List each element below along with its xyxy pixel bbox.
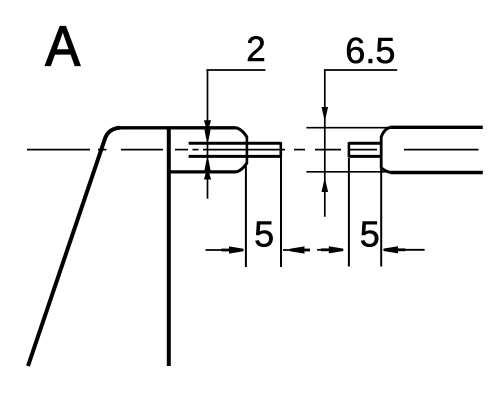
dimension 2 line [207,70,209,199]
svg-text:5: 5 [254,213,274,254]
right pin bottom outline [349,155,381,158]
centerline (dash-dot axis) [27,149,479,151]
frame diagonal edge with top fillet [28,128,120,366]
left pin bottom outline [189,155,281,158]
dimension 2 arrow outer top [204,120,211,128]
extension line right 5 second [380,169,382,267]
spindle chamfer top [381,127,390,137]
dimension right 5 arrow left [329,246,344,253]
dimension left 5 arrow left [229,246,244,253]
dimension right 5 line left part [317,249,331,251]
anvil chamfer top [237,128,247,137]
extension line left 5 second [280,158,282,268]
anvil chamfer bottom [237,163,247,172]
extension line 6.5 top [306,127,390,129]
extension line left 5 first [245,164,247,268]
left pin end cap [279,142,282,157]
dimension right 5 arrow right [384,246,399,253]
dimension 2 arrow inner top [204,130,210,140]
dimension 2 arrow inner bottom [204,160,210,171]
frame right vertical edge [167,129,171,367]
svg-text:A: A [45,13,80,78]
extension line 6.5 bottom [306,171,390,173]
dimension 2 arrow outer bottom [204,172,211,180]
svg-text:6.5: 6.5 [345,30,395,71]
dimension left 5 line right part [283,249,310,251]
spindle bottom outline [390,171,483,174]
left pin top outline [189,142,281,145]
dimension 2 leader [206,69,265,71]
dimension 6.5 arrow bottom [322,178,329,193]
anvil end face [246,136,249,164]
dimension left 5 arrow right [290,246,305,253]
dimension left 5 line left part [206,249,232,251]
dimension 6.5 leader [324,69,397,71]
svg-text:2: 2 [246,30,265,69]
dimension 6.5 line [324,70,326,217]
svg-text:5: 5 [360,213,380,254]
spindle chamfer bottom [381,168,390,173]
right pin top outline [349,142,381,145]
dimension right 5 line right part [384,249,425,251]
spindle top outline [390,126,483,129]
spindle end face [380,136,383,169]
right pin end cap [348,142,351,157]
anvil bottom outline [169,170,237,173]
anvil top outline [116,126,237,129]
extension line right 5 first [348,158,350,267]
dimension 6.5 arrow top [322,107,329,122]
